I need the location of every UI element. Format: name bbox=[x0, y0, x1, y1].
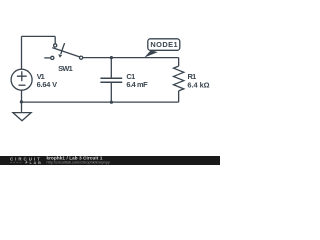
voltage source V1 circle bbox=[11, 69, 32, 90]
svg-text:NODE1: NODE1 bbox=[150, 40, 177, 49]
capacitor C1 top plate bbox=[100, 77, 122, 79]
wire switch pole drop bbox=[54, 36, 56, 44]
switch SW1 left contact bbox=[51, 56, 54, 59]
switch SW1 pole contact bbox=[54, 44, 57, 47]
svg-text:6.4 mF: 6.4 mF bbox=[126, 80, 148, 89]
switch SW1 right contact bbox=[80, 56, 83, 59]
ground symbol bbox=[13, 113, 31, 121]
svg-text:6.64 V: 6.64 V bbox=[37, 80, 57, 89]
NODE1 flag box bbox=[148, 39, 180, 51]
wire switch left stub bbox=[44, 57, 50, 59]
wire top-left horizontal bbox=[21, 35, 55, 37]
switch arrow head bbox=[58, 54, 62, 58]
wire C1 top lead bbox=[110, 58, 112, 78]
wire bottom rail bbox=[21, 101, 178, 103]
resistor R1 zigzag bbox=[174, 66, 184, 91]
capacitor C1 bottom plate bbox=[100, 81, 122, 83]
wire C1 bottom lead bbox=[110, 83, 112, 102]
switch SW1 actuator arrow bbox=[61, 43, 65, 54]
wire V1 bottom to ground bbox=[21, 90, 23, 112]
watermark logo dashes bbox=[10, 161, 23, 163]
svg-text:LAB: LAB bbox=[30, 160, 43, 165]
wire R1 bottom lead bbox=[178, 91, 180, 102]
wire top rail bbox=[83, 57, 179, 59]
watermark bar bbox=[0, 156, 220, 165]
junction node at C1 bottom bbox=[110, 101, 113, 104]
switch SW1 blade bbox=[52, 48, 79, 57]
svg-text:6.4 kΩ: 6.4 kΩ bbox=[187, 80, 209, 89]
NODE1 flag pointer bbox=[144, 50, 158, 57]
wire R1 top lead bbox=[178, 58, 180, 67]
V1 minus sign bbox=[19, 84, 26, 86]
svg-text:SW1: SW1 bbox=[58, 64, 73, 73]
junction node at C1 top bbox=[110, 56, 113, 59]
junction node at V1/ground bbox=[20, 100, 23, 103]
wire left vertical to V1 top bbox=[21, 36, 23, 69]
watermark logo bolt bbox=[25, 160, 28, 164]
svg-text:http://circuitlab.com/c/krophk: http://circuitlab.com/c/krophk/krwpnpy bbox=[47, 161, 110, 165]
V1 plus sign bbox=[17, 71, 27, 81]
